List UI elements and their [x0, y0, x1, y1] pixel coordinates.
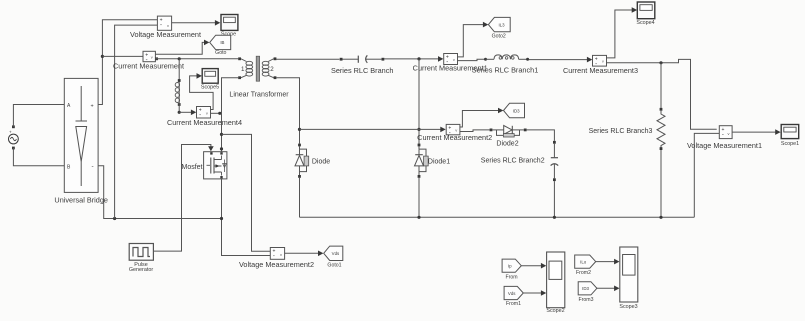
svg-text:Current Measurement3: Current Measurement3	[563, 66, 638, 75]
scope Scope3	[620, 247, 638, 302]
svg-text:IB: IB	[220, 40, 224, 45]
wire capacitor to CM1 with node	[384, 56, 443, 62]
scope Scope1	[781, 125, 799, 139]
from tag From1	[504, 286, 523, 299]
svg-text:v: v	[455, 127, 457, 132]
svg-text:IL3: IL3	[498, 22, 505, 27]
svg-text:v: v	[728, 131, 730, 136]
svg-text:ILo: ILo	[580, 259, 587, 264]
goto tag Goto3	[504, 103, 525, 117]
label From3	[579, 297, 594, 303]
Voltage Measurement2 block	[270, 248, 284, 260]
svg-text:From: From	[505, 275, 517, 281]
label Pulse Generator	[129, 262, 153, 273]
scope Scope4	[637, 2, 655, 19]
from tag From2	[575, 255, 596, 268]
scope Scope2	[547, 252, 565, 308]
svg-text:Mosfet: Mosfet	[181, 164, 202, 171]
svg-text:Current Measurement: Current Measurement	[113, 62, 184, 71]
svg-text:Vds: Vds	[508, 291, 516, 296]
Current Measurement block	[143, 51, 155, 63]
label Scope2	[546, 308, 564, 314]
label Diode2	[496, 141, 518, 148]
diode Diode	[295, 144, 309, 218]
svg-text:Generator: Generator	[129, 267, 153, 273]
svg-text:v: v	[280, 252, 282, 257]
label Series RLC Branch	[331, 66, 393, 75]
svg-text:Scope2: Scope2	[546, 308, 564, 314]
Universal Bridge	[64, 78, 98, 192]
wire gate loop from pulse generator	[153, 145, 213, 252]
svg-text:v: v	[167, 23, 169, 28]
label Scope4	[636, 20, 654, 26]
node inductor to CM4	[178, 110, 197, 116]
svg-text:v: v	[602, 59, 604, 64]
wire VM2 to Goto1	[285, 251, 324, 257]
svg-text:Scope5: Scope5	[201, 84, 219, 90]
wire CM3 output to load node	[607, 59, 717, 129]
wire From2 to Scope3	[596, 259, 620, 265]
capacitor Series RLC Branch2	[551, 141, 559, 217]
label Voltage Measurement1	[687, 141, 762, 150]
from tag From	[502, 259, 521, 272]
label From1	[506, 301, 521, 307]
scope Scope5	[202, 69, 218, 84]
from tag From3	[578, 282, 597, 295]
svg-text:Goto: Goto	[215, 50, 226, 56]
wire transformer secondary top to capacitor	[276, 58, 339, 60]
wire transformer secondary bottom down left column	[276, 78, 301, 144]
label Scope1	[781, 141, 799, 147]
wire VM1 to Scope1	[732, 129, 781, 135]
Linear Transformer	[238, 56, 276, 81]
label Diode1	[428, 158, 450, 165]
svg-text:Diode1: Diode1	[428, 158, 450, 165]
wire CM1 i output to Goto2	[458, 22, 489, 57]
wire From1 to Scope2	[523, 290, 546, 296]
label Universal Bridge	[54, 196, 108, 205]
label Voltage Measurement	[130, 30, 201, 39]
svg-text:2: 2	[270, 66, 274, 73]
wire bridge + up to Voltage Measurement	[98, 20, 157, 105]
svg-text:Scope1: Scope1	[781, 141, 799, 147]
wire CM4 i output loop to Scope5	[190, 73, 214, 109]
wire CM3 i output to Scope4	[607, 7, 638, 58]
svg-text:Scope4: Scope4	[636, 20, 654, 26]
label Goto1	[327, 262, 341, 268]
label Goto2	[492, 34, 506, 40]
Mosfet block	[204, 152, 227, 179]
svg-text:-: -	[273, 254, 275, 260]
label Linear Transformer	[229, 91, 289, 98]
svg-text:From1: From1	[506, 301, 521, 307]
wire bottom rail	[300, 216, 695, 219]
inductor branch vertical coil	[175, 59, 180, 113]
wire row2 from diode column to CM2	[300, 127, 446, 133]
Current Measurement4 block	[197, 107, 211, 119]
label Goto	[215, 50, 226, 56]
svg-text:ID3: ID3	[582, 286, 589, 291]
Current Measurement3 block	[593, 55, 607, 67]
svg-text:v: v	[453, 57, 455, 62]
svg-text:1: 1	[241, 66, 245, 73]
wire AC source bottom to bridge B	[13, 148, 64, 166]
resistor Series RLC Branch3	[657, 63, 665, 218]
wire CM4 output to drain column	[211, 112, 222, 115]
label Current Measurement4	[167, 118, 242, 127]
wire AC source top to bridge A	[13, 105, 64, 127]
svg-text:Series RLC Branch: Series RLC Branch	[331, 66, 393, 75]
svg-text:-: -	[160, 22, 162, 28]
diode Diode2	[490, 126, 527, 138]
wire Voltage Measurement to Scope	[172, 20, 221, 26]
label Voltage Measurement2	[239, 260, 314, 269]
svg-text:+: +	[91, 103, 94, 109]
svg-text:From3: From3	[579, 297, 594, 303]
goto tag Goto	[210, 35, 231, 49]
svg-text:Universal Bridge: Universal Bridge	[54, 196, 108, 205]
AC voltage source	[9, 125, 19, 149]
label Series RLC Branch3	[589, 128, 653, 135]
Voltage Measurement block	[157, 16, 171, 30]
svg-text:Voltage Measurement: Voltage Measurement	[130, 30, 201, 39]
wire bridge - down to bottom rail	[98, 166, 221, 219]
svg-text:Voltage Measurement1: Voltage Measurement1	[687, 141, 762, 150]
svg-text:Linear Transformer: Linear Transformer	[229, 91, 289, 98]
svg-text:+: +	[9, 130, 12, 135]
svg-text:Diode2: Diode2	[496, 141, 518, 148]
goto tag Goto1	[324, 246, 343, 260]
inductor Series RLC Branch1	[484, 55, 529, 61]
wire Current Measurement output to Linear Transformer	[155, 57, 238, 60]
wire CM2 i output to Goto3	[460, 108, 504, 127]
goto tag Goto2	[488, 17, 510, 31]
Pulse Generator	[129, 244, 153, 261]
label Diode	[312, 158, 330, 165]
svg-text:Goto2: Goto2	[492, 34, 506, 40]
svg-text:Series RLC Branch2: Series RLC Branch2	[481, 158, 545, 165]
wire CM1 to inductor	[458, 59, 485, 60]
wire From to Scope2	[521, 263, 546, 269]
label From	[505, 275, 517, 281]
wire VM minus riser	[113, 25, 157, 220]
label Mosfet	[181, 164, 202, 171]
svg-text:Vds: Vds	[332, 251, 340, 256]
svg-text:Goto1: Goto1	[327, 262, 341, 268]
svg-text:Series RLC Branch1: Series RLC Branch1	[472, 66, 539, 75]
label Series RLC Branch2	[481, 158, 545, 165]
wire transformer primary bottom to mosfet drain	[220, 78, 238, 152]
svg-text:-: -	[722, 132, 724, 138]
svg-text:Voltage Measurement2: Voltage Measurement2	[239, 260, 314, 269]
label Current Measurement2	[417, 133, 492, 142]
svg-text:Series RLC Branch3: Series RLC Branch3	[589, 128, 653, 135]
label Current Measurement1	[413, 64, 488, 73]
node drain tap to Voltage Measurement2 plus	[220, 133, 270, 252]
wire node column to row2 and Diode1	[417, 59, 420, 144]
wire Current Measurement i output to Goto	[155, 40, 209, 55]
svg-text:Current Measurement4: Current Measurement4	[167, 118, 242, 127]
Current Measurement1 block	[444, 54, 458, 66]
svg-text:Ip: Ip	[508, 264, 512, 269]
wire Diode2 to capacitor column	[527, 130, 555, 141]
svg-text:ID3: ID3	[513, 108, 520, 113]
label Current Measurement3	[563, 66, 638, 75]
label Series RLC Branch1	[472, 66, 539, 75]
svg-text:-: -	[92, 163, 94, 170]
svg-text:Current Measurement2: Current Measurement2	[417, 133, 492, 142]
svg-text:From2: From2	[576, 270, 591, 276]
label From2	[576, 270, 591, 276]
wire From3 to Scope3	[597, 286, 620, 292]
node junction on + line feeding Current Measurement	[101, 55, 143, 58]
Current Measurement2 block	[446, 124, 460, 136]
diode Diode1	[415, 144, 429, 218]
svg-text:v: v	[151, 54, 153, 59]
svg-text:v: v	[206, 111, 208, 116]
wire inductor to CM3	[529, 57, 592, 63]
wire CM2 to Diode2	[460, 130, 490, 132]
capacitor Series RLC Branch	[340, 55, 385, 63]
wire VM1 minus to bottom rail	[694, 133, 719, 217]
svg-text:Scope3: Scope3	[619, 304, 637, 310]
Voltage Measurement1 block	[719, 126, 732, 139]
svg-text:Diode: Diode	[312, 158, 330, 165]
label Scope	[221, 32, 236, 38]
scope Scope	[221, 15, 238, 31]
label Current Measurement	[113, 62, 184, 71]
wire mosfet source down to rail and VM2 minus	[220, 179, 270, 256]
label Scope5	[201, 84, 219, 90]
label Scope3	[619, 304, 637, 310]
